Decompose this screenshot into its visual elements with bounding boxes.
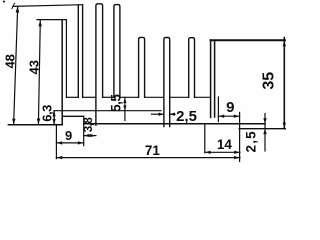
dimension line 71 [56,157,240,159]
arrow 43 bottom [37,119,41,125]
right edge (35 dim line) [283,38,285,129]
arrow 3,8 right [90,134,95,137]
arrow 35 top [283,41,286,46]
fin G outline [189,38,195,98]
extension / step line right [239,112,241,161]
fin A right wall [65,20,67,98]
arrow 3,8 left [84,134,89,137]
right block top [211,39,285,41]
svg-text:5,5: 5,5 [108,94,123,112]
base bottom right part [84,123,265,125]
svg-text:14: 14 [217,137,233,152]
dimension line 2,5 center right segment [170,113,175,115]
extension line for 14 (left) [204,124,206,153]
arrow 71 right [234,156,239,159]
foot bottom [239,128,285,130]
svg-text:2,5: 2,5 [244,130,259,152]
fin A left wall [61,20,63,125]
right block left wall inner [214,41,216,117]
fin C outline [96,4,103,125]
base bottom left part / extension of 48,43 [8,124,62,126]
arrow 5,5 top [123,98,126,103]
arrow 35 bottom [283,123,286,128]
fin B right wall [82,5,84,98]
fin B left wall [77,5,79,98]
speck top-left [3,0,5,2]
dimension line 48 [14,6,18,125]
arrow 43 top [38,21,42,27]
svg-text:48: 48 [3,54,18,68]
notch right wall / extension of 9,3.8 [83,116,85,145]
arrow 2,5R lower [263,129,266,134]
svg-text:9: 9 [226,99,234,116]
extension line left (9/71) [55,126,57,159]
arrow 14 right [234,151,239,154]
arrow 9L left [57,141,62,144]
svg-text:6,3: 6,3 [40,105,55,122]
arrow 71 left [57,156,62,159]
right block left wall outer [210,40,212,118]
dimension line 2,5 center left segment [152,113,164,115]
left edge [53,111,55,125]
dimension line 14 [205,151,240,153]
arrow 5,5 down [123,106,126,111]
channel floor segments [66,96,78,98]
notch ceiling [62,115,83,117]
arrow 2,5c left [170,113,175,116]
fin E outline [139,37,145,97]
svg-text:2,5: 2,5 [176,108,197,125]
extension line (43) / fin A top [37,19,66,21]
svg-text:43: 43 [26,60,41,74]
extension line top (48) / fin B top [13,5,83,7]
svg-text:3,8: 3,8 [83,117,95,133]
fin F outline [164,38,170,127]
svg-text:71: 71 [145,143,161,158]
arrow 9R right [234,115,239,118]
ledge / extension (5,5) [54,110,161,112]
arrow 48 bottom [12,119,16,125]
extension line for 9 right [217,97,219,122]
arrow 6,3 bottom [53,119,56,124]
arrow 48 top [16,6,20,12]
svg-text:35: 35 [261,72,278,90]
arrow 14 left [205,151,210,154]
arrow 9R left [219,115,224,118]
dimension line 9 right [218,115,239,117]
dimension line 43 [38,20,40,124]
fin D outline [114,5,120,98]
arrow 9L right [78,141,83,144]
svg-text:9: 9 [65,128,72,143]
dimension line 3,8 [84,135,96,137]
arrow 6,3 top [53,111,56,116]
dimension line 9 left [56,142,83,144]
dimension line 5,5 [124,97,126,120]
arrow 2,5c right [159,113,164,116]
extension / dim line 2,5 right [264,114,266,152]
arrow 2,5R upper [263,118,266,123]
